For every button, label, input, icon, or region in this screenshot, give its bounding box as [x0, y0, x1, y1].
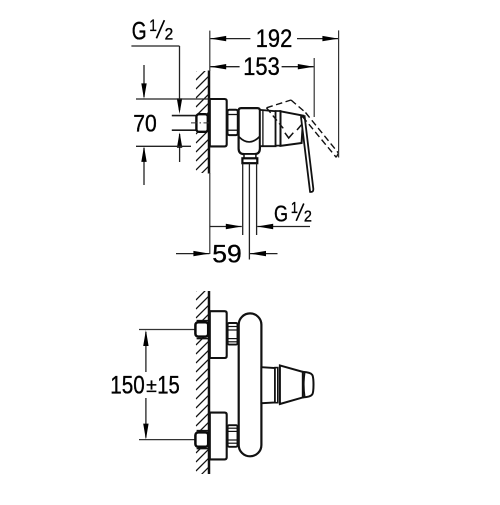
- cartridge ring band: [260, 110, 276, 146]
- G 1/2 label top-left: [131, 16, 182, 162]
- bottom union nut (bottom view): [195, 432, 208, 446]
- outlet hose nut: [242, 158, 257, 163]
- wall hatching (top view): [196, 57, 210, 179]
- wall hatching (bottom view): [196, 277, 210, 480]
- valve body (top view): [239, 108, 260, 154]
- bottom hex adapter (bottom view): [228, 425, 238, 447]
- shroud bottom arc inside body: [239, 137, 260, 142]
- handle neck (bottom view): [261, 367, 275, 403]
- svg-text:153: 153: [243, 53, 280, 81]
- svg-text:G: G: [132, 18, 147, 46]
- dimension 192: [210, 25, 338, 158]
- up arrow below pipe: [179, 134, 181, 162]
- dimension 153: [210, 53, 314, 117]
- wall face thick line (top view): [208, 71, 211, 174]
- svg-text:G: G: [274, 201, 288, 227]
- end cap inner curve: [303, 372, 306, 397]
- mixer body capsule (bottom view): [239, 313, 262, 456]
- top hex adapter (bottom view): [228, 323, 238, 345]
- handle hub (solid): [281, 111, 304, 146]
- outlet neck: [244, 154, 256, 158]
- dashed raised handle outline: [267, 100, 339, 157]
- dimension 59: [176, 240, 278, 268]
- ring inner line: [262, 110, 264, 146]
- wall face thick line (bottom view): [208, 291, 211, 474]
- escutcheon (top view): [210, 99, 227, 146]
- bottom washer lines: [197, 430, 209, 432]
- supply pipe stub: [172, 115, 197, 117]
- extension line to top nut: [139, 329, 195, 331]
- svg-text:1: 1: [149, 16, 157, 35]
- handle end cap (bottom view): [303, 372, 314, 398]
- svg-text:150: 150: [110, 372, 145, 400]
- svg-text:192: 192: [256, 25, 293, 53]
- extension line to bottom nut: [139, 439, 195, 441]
- pipe centerline (dash-dot): [191, 122, 212, 124]
- svg-text:1: 1: [291, 200, 298, 217]
- check mark on dashed handle: [285, 133, 293, 138]
- bell ring band: [276, 111, 281, 146]
- wall face extension line lower: [209, 173, 211, 254]
- svg-text:15: 15: [157, 372, 180, 400]
- shower hose lines: [242, 163, 244, 235]
- dimension 150±15: [110, 330, 180, 440]
- dimension 70: [133, 65, 209, 185]
- bottom escutcheon (bottom view): [210, 413, 227, 460]
- lever blade (solid): [301, 116, 313, 192]
- hex adapter (top view): [228, 110, 238, 135]
- dash segment above check: [297, 124, 302, 130]
- G 1/2 label middle: [210, 200, 312, 229]
- handle grip cone (bottom view): [280, 365, 303, 404]
- top washer lines: [197, 320, 209, 322]
- svg-text:70: 70: [133, 110, 157, 137]
- top escutcheon (bottom view): [210, 311, 227, 358]
- wall face extension line upper: [209, 31, 211, 71]
- svg-text:2: 2: [304, 209, 312, 226]
- svg-text:59: 59: [212, 240, 242, 268]
- union nut on pipe: [196, 114, 207, 132]
- svg-text:2: 2: [165, 24, 174, 43]
- handle ring (bottom view): [275, 368, 278, 403]
- top union nut (bottom view): [195, 322, 208, 336]
- leader line from G1/2: [131, 45, 179, 47]
- svg-text:±: ±: [146, 375, 157, 397]
